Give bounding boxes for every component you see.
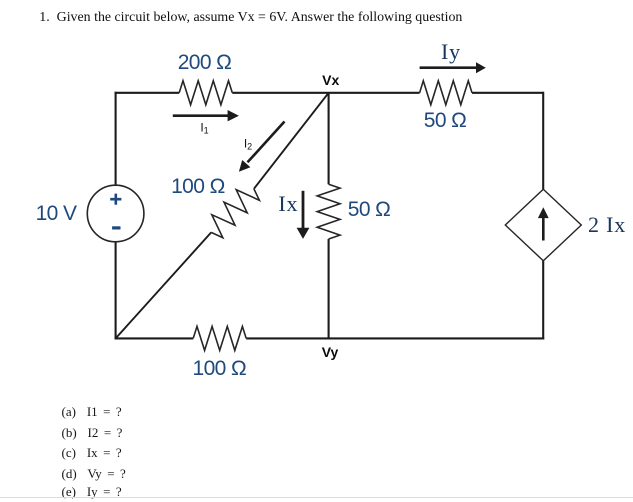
voltage source V1 10V (circle) xyxy=(87,185,144,242)
wire left vertical upper (corner to voltage source) xyxy=(115,92,117,185)
label 50 ohm value (top right resistor) xyxy=(424,109,467,133)
voltage source minus sign xyxy=(112,226,120,229)
label 10 V source value xyxy=(36,202,77,226)
wire diagonal lower lead (bottom-left corner to 100ohm diagonal resistor) xyxy=(116,232,212,338)
dependent current source arrow (upward) xyxy=(538,207,549,240)
resistor R 100ohm (diagonal zigzag) xyxy=(211,189,259,238)
node Vx label xyxy=(322,72,339,88)
wire diagonal upper lead (100ohm diagonal resistor to node Vx) xyxy=(254,93,329,189)
resistor R 50ohm (middle, vertical zigzag) xyxy=(317,184,340,239)
voltage source plus sign xyxy=(110,194,121,205)
resistor R 200ohm (top left, horizontal zigzag) xyxy=(179,81,232,105)
wire right vertical upper (top-right corner to current source) xyxy=(542,92,544,189)
wire top-left segment (top-left corner to 200ohm resistor) xyxy=(115,92,180,94)
question (d) Vy xyxy=(62,466,126,482)
label dependent source value 2 Ix xyxy=(588,212,626,238)
question (b) I2 xyxy=(62,425,123,441)
label current I1 xyxy=(200,121,208,136)
wire left vertical lower (voltage source to bottom-left corner) xyxy=(115,242,117,340)
wire middle vertical upper (node Vx to 50ohm resistor) xyxy=(328,93,330,184)
current arrow Iy (to the right, above top 50ohm) xyxy=(420,62,486,73)
current arrow I2 (diagonal, pointing down-left) xyxy=(239,122,285,172)
resistor R 50ohm (top right, horizontal zigzag) xyxy=(420,81,472,105)
question (a) I1 xyxy=(62,404,122,420)
label 200 ohm value xyxy=(178,51,232,75)
label current Ix xyxy=(278,191,298,217)
label current Iy xyxy=(441,39,461,65)
label current I2 xyxy=(244,136,252,151)
dependent current source 2Ix (diamond) xyxy=(505,189,581,261)
label 100 ohm value (diagonal resistor) xyxy=(171,175,225,199)
wire top-right segment (50ohm to top-right corner) xyxy=(472,92,543,94)
wire bottom-right segment (100ohm resistor to bottom-right corner) xyxy=(246,337,544,339)
divider line at bottom xyxy=(0,497,633,498)
wire middle vertical lower (50ohm resistor to node Vy) xyxy=(328,239,330,338)
wire right vertical lower (current source to bottom-right corner) xyxy=(542,261,544,340)
resistor R 100ohm (bottom, horizontal zigzag) xyxy=(193,326,246,350)
label 100 ohm value (bottom resistor) xyxy=(193,357,247,381)
question (c) Ix xyxy=(62,445,122,461)
node Vy label xyxy=(322,344,339,360)
current arrow I1 (to the right, under 200ohm) xyxy=(173,110,239,121)
wire top-middle segment (200ohm to 50ohm, through node Vx) xyxy=(232,92,419,94)
question (e) Iy xyxy=(62,484,122,500)
label 50 ohm value (middle resistor) xyxy=(348,198,391,222)
wire bottom-left segment (bottom-left corner to 100ohm resistor) xyxy=(115,337,194,339)
current arrow Ix (downward, left of middle 50ohm) xyxy=(297,191,310,239)
title: problem statement xyxy=(39,10,462,26)
